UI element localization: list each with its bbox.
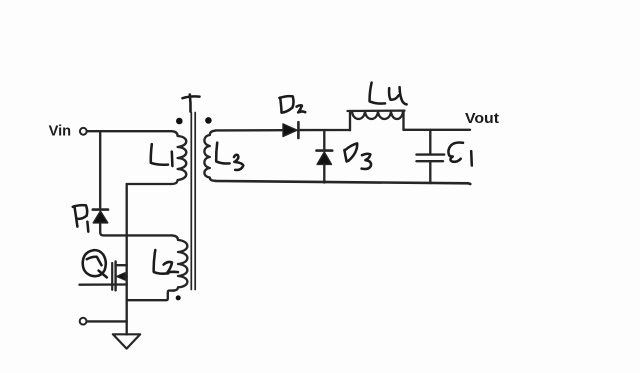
node Vin terminal [80,128,87,135]
transistor Q1 MOSFET [111,263,113,290]
wire D1 branch drop [99,131,101,207]
wire secondary top rail to D2 [216,129,284,132]
label L4 [370,83,385,104]
transformer winding L2 [172,235,187,290]
node phase dot secondary [205,117,212,124]
label Vout [465,111,499,127]
wire secondary bottom rail [216,181,471,184]
ground [113,334,140,348]
label Q1 [83,250,106,276]
wire primary bottom return [127,183,172,185]
label Vin [49,123,72,139]
diode D1 [93,208,108,211]
label D1 [74,206,77,226]
wire L4 to output end [404,129,471,131]
capacitor C1 [429,130,431,154]
inductor L4 [350,111,353,130]
label D3 [344,150,346,161]
svg-text:Vin: Vin [49,123,72,139]
transformer core [190,113,192,290]
label D2 [280,98,281,113]
node bottom terminal [80,318,87,325]
svg-text:Vout: Vout [465,111,499,127]
transformer winding L3 [204,131,215,181]
wire Vin rail to transformer primary top [87,130,172,132]
wire gate lead [80,283,127,286]
diode D3 [323,130,325,150]
wire drain-source bus vertical [126,184,128,335]
diode D2 [283,124,297,137]
transformer winding L1 [172,131,187,184]
node phase dot primary [176,118,183,125]
label L3 [216,143,229,164]
node phase dot L2 [176,295,181,300]
label L1 [151,144,168,165]
wire D1 cathode to reset-rail corner [100,223,172,235]
label T [183,96,200,98]
label L2 [154,250,169,274]
label C1 [448,143,463,162]
wire bottom terminal to ground node [87,320,127,322]
wire D2 cathode to L4 [300,129,351,131]
wire L2 bottom return [127,291,174,301]
